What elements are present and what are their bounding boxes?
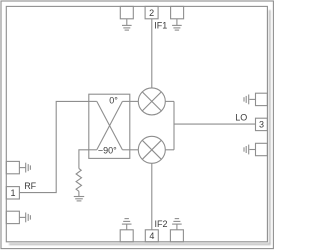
wire pad P10 to ground: [249, 149, 255, 151]
svg-text:IF1: IF1: [154, 20, 167, 30]
wire pad P8 to ground: [19, 216, 25, 218]
wire pad P7 to ground: [19, 167, 25, 169]
wire pad P6 to ground: [176, 19, 178, 25]
svg-text:−90°: −90°: [98, 146, 117, 156]
hybrid internal stub bottom-left: [89, 149, 97, 151]
wire pad P12 to ground: [176, 224, 178, 230]
pad P5 (top-left grounded pad): [120, 6, 133, 18]
mixer M1 (top): [138, 88, 165, 115]
svg-text:LO: LO: [235, 112, 247, 122]
ground (below resistor R1): [74, 197, 84, 201]
wire resistor R1 to ground: [78, 191, 80, 196]
pad P8 (left grounded pad below RF): [6, 211, 19, 223]
wire RF path pin1 to hybrid: [19, 101, 88, 192]
pad P7 (left grounded pad above RF): [6, 161, 19, 173]
svg-text:0°: 0°: [109, 96, 118, 106]
wire mixer M2 to pin 4: [151, 163, 153, 230]
chip outline rectangle: [6, 6, 267, 241]
pin 4 box (IF2 port): [145, 230, 158, 242]
svg-text:4: 4: [149, 231, 154, 241]
hybrid internal stub top-left: [89, 100, 97, 102]
hybrid X line BL-TR: [97, 101, 123, 149]
pad P6 (top-right grounded pad): [171, 6, 184, 18]
pad P12 (bottom-right grounded pad): [170, 230, 183, 242]
pad P11 (bottom-left grounded pad): [120, 230, 133, 242]
ground (right of pad P8, sideways): [26, 213, 31, 223]
wire hybrid top-right port to mixer M1: [130, 100, 139, 102]
resistor R1 (termination): [76, 169, 81, 192]
ground (left of pad P9, sideways): [244, 95, 249, 105]
ground (right of pad P7, sideways): [26, 163, 31, 173]
wire hybrid bottom-right port to mixer M2: [130, 149, 139, 151]
ground (top-right, below pad P6): [172, 25, 182, 30]
mixer M2 (bottom): [138, 136, 165, 163]
wire mixer M2 to LO junction: [165, 149, 174, 151]
svg-text:3: 3: [259, 120, 264, 130]
ground (above pad P12, flipped): [172, 219, 182, 225]
wire pad P11 to ground: [126, 224, 128, 230]
wire LO junction to pin 3: [174, 123, 256, 125]
wire hybrid bottom-left port to resistor R1: [79, 150, 89, 169]
hybrid X line TL-BR: [97, 101, 123, 149]
hybrid internal stub bottom-right: [122, 149, 129, 151]
ground (top-left, below pad P5): [122, 25, 132, 30]
hybrid internal stub top-right: [122, 100, 129, 102]
wire LO junction vertical: [173, 101, 175, 149]
pad P9 (right grounded pad above LO): [256, 93, 268, 105]
wire pad P5 to ground: [126, 19, 128, 25]
pin 3 box (LO port): [256, 118, 268, 130]
ground (above pad P11, flipped): [122, 219, 132, 225]
svg-text:2: 2: [149, 8, 154, 18]
pin 1 box (RF port): [6, 187, 19, 199]
wire mixer M1 to LO junction: [165, 100, 174, 102]
pin 2 box (IF1 port): [145, 6, 158, 18]
ground (left of pad P10, sideways): [244, 145, 249, 155]
svg-text:IF2: IF2: [155, 219, 168, 229]
svg-text:1: 1: [10, 188, 15, 198]
wire pad P9 to ground: [249, 98, 255, 100]
chip outline shadow: [9, 10, 270, 244]
svg-text:RF: RF: [24, 181, 36, 191]
pad P10 (right grounded pad below LO): [256, 143, 268, 155]
wire pin2 to mixer M1: [151, 19, 153, 88]
quadrature hybrid U1 box: [89, 94, 130, 158]
